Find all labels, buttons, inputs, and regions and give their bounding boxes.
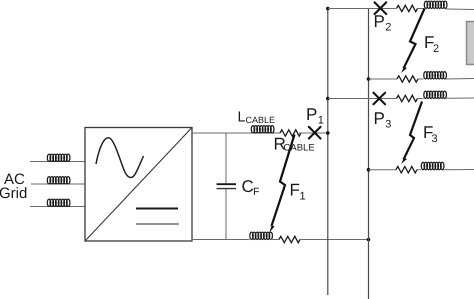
fault F2 bolt (401, 9, 425, 74)
wire feeder2 return mid (418, 78, 424, 80)
svg-text:CABLE: CABLE (246, 115, 276, 125)
junction bus2 feeder3 return (367, 168, 371, 172)
converter U1 diagonal (85, 128, 192, 242)
inductor feeder2 return (424, 72, 447, 79)
wire feeder3 mid (418, 98, 424, 100)
resistor feeder2 (397, 5, 418, 11)
capacitor branch wire upper (225, 133, 227, 184)
label F2 (424, 33, 439, 55)
load block right edge (467, 22, 474, 65)
wire phase c (30, 206, 85, 208)
converter U1 sine symbol (96, 138, 144, 178)
inductor phase b (47, 177, 70, 184)
svg-text:2: 2 (433, 43, 439, 55)
wire feeder2 return to edge (446, 78, 474, 81)
bus1 vertical (327, 9, 329, 296)
wire return to bus2 (300, 239, 369, 241)
bus2 vertical (368, 9, 370, 299)
wire phase b (31, 183, 85, 185)
converter U1 dc symbol bottom bar (136, 223, 179, 225)
capacitor CF top plate (217, 183, 237, 185)
converter U1 dc symbol top bar (136, 208, 178, 210)
wire return mid (270, 239, 280, 241)
svg-text:2: 2 (385, 22, 391, 34)
wire phase a (30, 161, 85, 163)
label P2 (374, 12, 392, 34)
svg-text:3: 3 (432, 133, 438, 145)
wire feeder2 return (369, 78, 398, 80)
inductor feeder3 return (421, 162, 444, 169)
label F3 (423, 123, 438, 145)
capacitor CF bottom plate (217, 188, 237, 190)
fault F3 bolt (401, 102, 422, 165)
label CF (242, 177, 260, 198)
label R_CABLE (274, 135, 315, 154)
wire feeder3 return (369, 169, 397, 171)
converter U1 box (85, 128, 192, 242)
inductor phase c (47, 199, 70, 206)
svg-text:C: C (242, 177, 254, 196)
label L_CABLE (238, 110, 276, 126)
label P3 (374, 109, 392, 131)
junction bus2 feeder2 return (367, 77, 371, 81)
inductor return cable (250, 232, 273, 239)
resistor feeder2 return (397, 76, 418, 82)
resistor R_CABLE (280, 130, 301, 136)
wire feeder2 mid (418, 8, 425, 10)
svg-text:P: P (374, 109, 385, 128)
inductor feeder3 (424, 91, 447, 98)
resistor return cable (279, 236, 300, 242)
svg-text:Grid: Grid (0, 185, 27, 202)
resistor feeder3 return (396, 167, 417, 173)
breaker P3 X (374, 93, 386, 105)
svg-text:L: L (238, 110, 246, 126)
label P1 (306, 105, 324, 127)
node AC Grid label (0, 171, 27, 202)
junction bus2 return (367, 238, 371, 242)
fault F1 bolt (268, 135, 294, 233)
wire dc positive from converter (192, 132, 280, 134)
breaker P2 X (375, 2, 387, 14)
label F1 (290, 181, 306, 203)
svg-text:F: F (290, 181, 300, 200)
svg-text:P: P (306, 105, 317, 124)
inductor L_CABLE (251, 126, 274, 133)
wire feeder2 out (328, 8, 396, 10)
junction bus1 feeder3 (326, 97, 330, 101)
resistor feeder3 (397, 95, 418, 101)
svg-text:1: 1 (318, 115, 324, 127)
wire feeder3 to edge (446, 97, 474, 99)
wire to bus1 (299, 132, 328, 134)
wire dc return from converter (192, 239, 250, 241)
junction bus1 top (326, 7, 330, 11)
svg-text:F: F (253, 186, 259, 198)
wire feeder2 to edge (446, 8, 474, 11)
breaker P1 X (309, 127, 321, 139)
wire feeder3 return mid (417, 169, 421, 171)
wire feeder3 return to edge (443, 169, 474, 171)
inductor phase a (47, 154, 70, 161)
inductor feeder2 (424, 1, 447, 8)
capacitor branch wire lower (225, 189, 227, 239)
svg-text:3: 3 (385, 119, 391, 131)
wire feeder3 out (328, 98, 396, 100)
svg-text:P: P (374, 12, 385, 31)
svg-text:1: 1 (300, 191, 306, 203)
junction bus1 main (326, 131, 330, 135)
